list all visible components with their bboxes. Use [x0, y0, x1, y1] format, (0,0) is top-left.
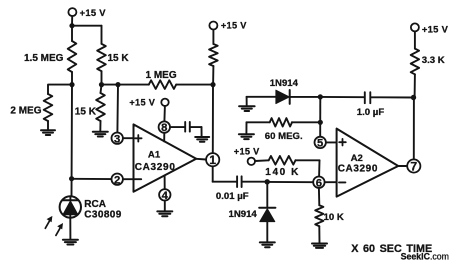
ground photodiode: [63, 240, 78, 245]
wire to pin6: [267, 181, 313, 183]
svg-text:15 K: 15 K: [75, 106, 97, 117]
op-amp A2 body: [337, 129, 399, 197]
ground 2MEG: [41, 130, 55, 135]
junction top-left: [69, 23, 74, 28]
resistor 3.3 K: [411, 31, 419, 97]
light arrow 2: [56, 223, 63, 235]
label 1.5 MEG: [24, 53, 64, 64]
svg-text:A1: A1: [148, 149, 161, 160]
wire pin5 column: [319, 97, 321, 136]
svg-text:A2: A2: [351, 153, 363, 164]
photodiode RCA C30809: [60, 196, 81, 218]
wire: [213, 167, 237, 182]
diode 1N914 upper: [247, 90, 321, 104]
power terminal +15V top-middle: [209, 22, 217, 30]
pin 2: [112, 174, 134, 187]
power terminal +15V pin8: [161, 99, 168, 106]
label +15 V pin8: [129, 98, 155, 108]
label +15 V 140K: [234, 146, 260, 156]
wire to pin7: [413, 98, 415, 160]
label +15 V top-right: [422, 23, 449, 34]
wire inverting column: [71, 85, 74, 197]
resistor 140 K: [255, 156, 320, 176]
ground 1N914 upper: [239, 106, 255, 111]
pin 3: [112, 133, 134, 146]
label CA3290 A2: [338, 164, 378, 175]
wire to pin3: [116, 85, 119, 133]
junction node C: [115, 82, 120, 87]
junction pin2 node: [69, 176, 74, 181]
resistor 15K upper: [97, 26, 106, 85]
ground 60MEG: [239, 134, 254, 139]
capacitor pin8 bypass: [170, 122, 201, 137]
resistor 1 MEG: [149, 80, 176, 89]
resistor 15K lower: [96, 85, 105, 132]
plus marker A1: [135, 135, 142, 142]
svg-text:+15 V: +15 V: [234, 146, 260, 156]
junction 60MEG node: [318, 120, 323, 125]
svg-text:2 MEG: 2 MEG: [10, 105, 41, 116]
pin 8: [159, 121, 170, 141]
minus marker A2: [339, 181, 345, 183]
label RCA: [84, 199, 106, 210]
resistor 1.5 MEG: [68, 26, 77, 85]
svg-text:3.3 K: 3.3 K: [422, 55, 445, 66]
junction output node: [265, 179, 270, 184]
resistor 2 MEG: [44, 94, 53, 130]
junction 3.3K node: [411, 95, 416, 100]
wire: [72, 25, 102, 27]
svg-text:15 K: 15 K: [108, 53, 130, 64]
wire: [163, 106, 166, 121]
svg-text:1 MEG: 1 MEG: [146, 70, 177, 81]
wire: [71, 16, 73, 26]
minus marker A1: [135, 178, 141, 180]
label 1 MEG: [146, 70, 177, 81]
pin 7 output: [398, 159, 420, 173]
ground 1N914 lower: [260, 242, 275, 247]
label CA3290 A1: [135, 162, 176, 173]
svg-text:C30809: C30809: [84, 209, 121, 220]
wire: [69, 218, 71, 240]
power terminal +15V top-left: [68, 8, 76, 16]
svg-text:3: 3: [114, 133, 120, 145]
power terminal +15V top-right: [411, 23, 419, 31]
label 60 MEG.: [265, 131, 303, 142]
svg-text:RCA: RCA: [84, 199, 106, 210]
wire to pin2: [72, 178, 112, 180]
ground 15K: [93, 132, 108, 137]
svg-text:+15 V: +15 V: [221, 21, 247, 31]
label 3.3 K: [422, 55, 445, 66]
svg-text:CA3290: CA3290: [338, 164, 378, 175]
label 1.0 uF: [357, 107, 385, 118]
junction diode node: [318, 94, 323, 99]
ground pin 4: [157, 211, 172, 216]
label 10 K: [324, 212, 344, 223]
label 1N914 upper: [270, 78, 299, 89]
svg-text:SeekIC.com: SeekIC.com: [401, 251, 449, 261]
diode 1N914 lower: [259, 182, 275, 242]
wire: [246, 97, 248, 106]
plus marker A2: [339, 139, 346, 146]
label 1N914 lower: [229, 209, 258, 220]
pin 1 output: [196, 153, 219, 167]
resistor pull-up unlabeled: [209, 30, 218, 85]
capacitor 0.01 uF: [237, 176, 265, 187]
junction node A left: [69, 82, 74, 87]
power terminal +15V 140K: [248, 158, 255, 165]
junction node B: [99, 82, 104, 87]
watermark SeekIC.com: [401, 251, 449, 261]
svg-text:CA3290: CA3290: [135, 162, 176, 173]
pin 5: [315, 137, 337, 150]
light arrow 1: [45, 216, 52, 228]
svg-text:+15 V: +15 V: [80, 7, 107, 18]
label +15 V top-left: [80, 7, 107, 18]
wire: [176, 84, 213, 86]
pin 4: [159, 176, 170, 212]
ground 10K: [312, 244, 327, 248]
label X 60 SEC TIME: [351, 243, 432, 255]
svg-text:10 K: 10 K: [324, 212, 344, 223]
svg-text:2: 2: [114, 174, 120, 186]
svg-text:1: 1: [209, 153, 216, 167]
label 15 K lower: [75, 106, 97, 117]
label A2: [351, 153, 363, 164]
label 140 K: [265, 167, 300, 178]
ground pin8 cap: [195, 137, 209, 142]
svg-text:1N914: 1N914: [270, 78, 299, 89]
label 2 MEG: [10, 105, 41, 116]
label +15 V top-middle: [221, 21, 247, 31]
label 15 K upper: [108, 53, 130, 64]
junction feedback node: [210, 82, 215, 87]
svg-text:60 MEG.: 60 MEG.: [265, 131, 303, 142]
capacitor 1.0 uF: [320, 92, 413, 103]
svg-text:1.5 MEG: 1.5 MEG: [24, 53, 64, 64]
svg-text:+15 V: +15 V: [129, 98, 155, 108]
svg-text:1.0 µF: 1.0 µF: [357, 107, 385, 118]
wire bus y84: [102, 84, 149, 86]
op-amp A1 body: [134, 124, 197, 191]
label A1: [148, 149, 161, 160]
resistor 10 K: [315, 188, 323, 243]
svg-text:7: 7: [410, 160, 417, 174]
wire: [48, 85, 72, 94]
pin 6: [313, 177, 336, 190]
svg-text:140 K: 140 K: [265, 167, 300, 178]
resistor 60 MEG: [247, 118, 318, 126]
wire: [245, 122, 247, 134]
svg-text:1N914: 1N914: [229, 209, 258, 220]
svg-text:5: 5: [317, 138, 323, 150]
wire feedback vertical: [212, 85, 214, 153]
svg-text:0.01 µF: 0.01 µF: [216, 191, 249, 202]
label C30809: [84, 209, 121, 220]
svg-text:+15 V: +15 V: [422, 23, 449, 34]
label 0.01 uF: [216, 191, 249, 202]
